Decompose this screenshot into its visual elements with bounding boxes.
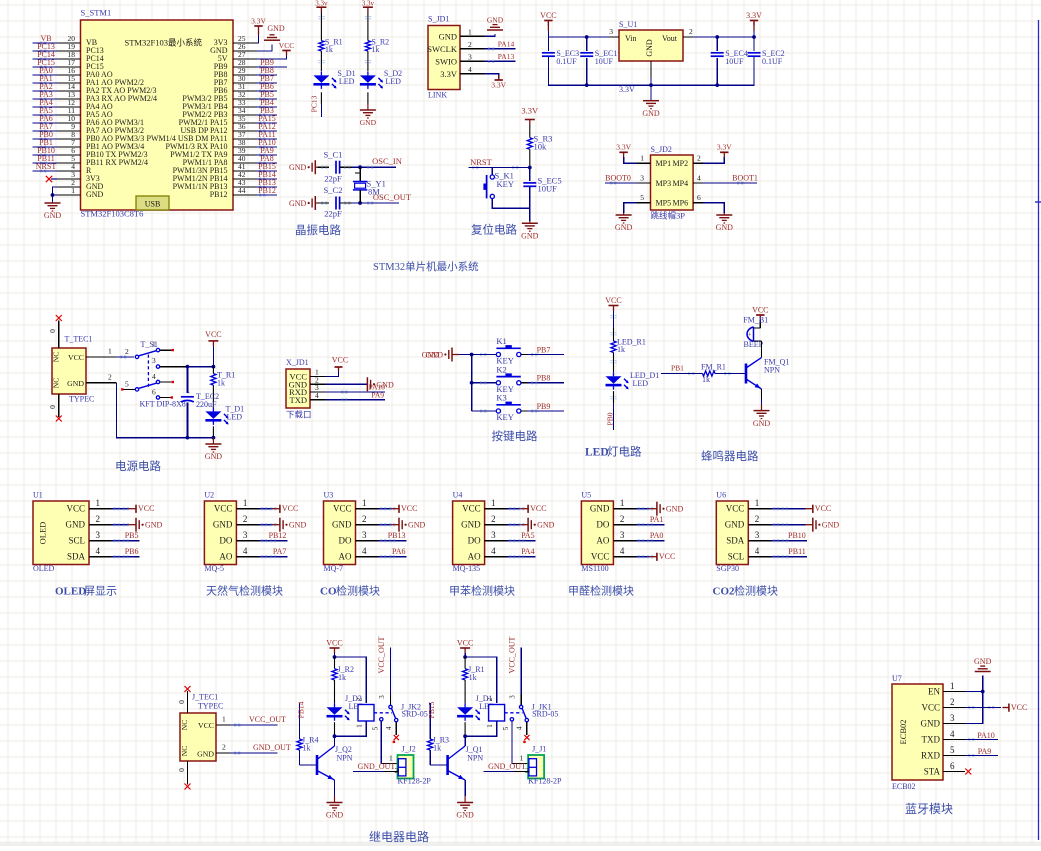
svg-text:6: 6: [697, 193, 701, 202]
svg-text:2: 2: [620, 514, 625, 524]
svg-text:+: +: [187, 390, 191, 397]
svg-text:GND: GND: [822, 521, 840, 530]
svg-text:3.3V: 3.3V: [717, 143, 732, 152]
svg-text:GND: GND: [487, 16, 504, 25]
svg-text:GND: GND: [289, 199, 307, 208]
svg-text:VCC: VCC: [214, 504, 233, 514]
svg-text:STM32F103C8T6: STM32F103C8T6: [81, 209, 144, 219]
svg-text:KEY: KEY: [497, 179, 514, 189]
svg-text:PA4: PA4: [521, 547, 535, 556]
svg-text:VCC: VCC: [1011, 703, 1027, 712]
svg-text:PB1: PB1: [671, 364, 684, 373]
svg-text:S_JD1: S_JD1: [428, 15, 449, 24]
svg-text:3.3V: 3.3V: [616, 143, 631, 152]
svg-text:MQ-7: MQ-7: [324, 564, 344, 573]
svg-text:2: 2: [697, 154, 701, 163]
svg-text:LINK: LINK: [428, 91, 447, 100]
svg-text:5: 5: [371, 726, 379, 730]
svg-text:MP5: MP5: [656, 199, 672, 208]
svg-text:3: 3: [950, 713, 955, 723]
svg-text:VCC: VCC: [726, 504, 745, 514]
svg-text:FM_B1: FM_B1: [743, 316, 768, 325]
svg-text:VCC: VCC: [540, 11, 556, 20]
svg-text:甲醛检测模块: 甲醛检测模块: [568, 584, 634, 598]
svg-text:MP6: MP6: [673, 199, 689, 208]
svg-text:GND: GND: [666, 505, 684, 514]
svg-text:GND: GND: [360, 118, 377, 127]
svg-text:GND: GND: [461, 520, 481, 530]
svg-text:3.3v: 3.3v: [362, 0, 375, 7]
svg-text:GND: GND: [456, 811, 474, 820]
svg-text:VCC: VCC: [66, 504, 85, 514]
svg-text:MP4: MP4: [673, 179, 689, 188]
svg-text:3: 3: [152, 356, 156, 365]
svg-text:LED: LED: [339, 77, 355, 86]
svg-text:TYPEC: TYPEC: [69, 395, 94, 404]
svg-text:PA0: PA0: [650, 531, 664, 540]
svg-text:1k: 1k: [371, 45, 379, 54]
svg-text:1: 1: [356, 724, 364, 728]
svg-text:GND: GND: [289, 521, 307, 530]
svg-text:S_STM1: S_STM1: [81, 8, 112, 18]
svg-text:4: 4: [491, 546, 496, 556]
svg-text:SWCLK: SWCLK: [427, 44, 458, 54]
svg-text:U6: U6: [716, 491, 726, 500]
svg-text:NRST: NRST: [470, 157, 493, 167]
svg-text:2: 2: [395, 766, 399, 775]
svg-text:SGP30: SGP30: [716, 564, 739, 573]
svg-text:MP3: MP3: [656, 179, 672, 188]
svg-text:PB13: PB13: [388, 531, 406, 540]
svg-text:OLED: OLED: [38, 522, 48, 545]
svg-text:GND: GND: [716, 223, 734, 232]
svg-text:10UF: 10UF: [725, 57, 744, 66]
svg-text:KFT DIP-8X8: KFT DIP-8X8: [140, 400, 186, 409]
svg-text:DO: DO: [339, 536, 352, 546]
svg-text:跳线帽3P: 跳线帽3P: [651, 211, 686, 221]
svg-text:1k: 1k: [217, 378, 225, 387]
svg-text:GND: GND: [725, 520, 745, 530]
svg-text:SCL: SCL: [728, 552, 745, 562]
svg-text:KF128-2P: KF128-2P: [528, 777, 562, 786]
svg-text:3: 3: [378, 695, 386, 699]
svg-text:PB10: PB10: [788, 531, 806, 540]
svg-text:1k: 1k: [338, 673, 346, 682]
svg-text:GND_OUT: GND_OUT: [253, 743, 291, 752]
svg-text:PB8: PB8: [537, 374, 551, 383]
svg-text:SWIO: SWIO: [435, 56, 457, 66]
svg-text:10UF: 10UF: [595, 57, 614, 66]
svg-text:电源电路: 电源电路: [115, 459, 161, 473]
svg-text:GND: GND: [426, 351, 444, 360]
svg-text:GND: GND: [205, 452, 223, 461]
svg-text:MP2: MP2: [673, 159, 689, 168]
svg-text:3: 3: [362, 530, 367, 540]
svg-text:PA7: PA7: [273, 547, 287, 556]
svg-text:VCC: VCC: [279, 41, 294, 50]
svg-text:USB: USB: [145, 200, 161, 209]
svg-text:+: +: [748, 332, 752, 339]
svg-text:PB9: PB9: [537, 402, 551, 411]
svg-text:1k: 1k: [617, 345, 625, 354]
svg-text:LED: LED: [633, 379, 649, 388]
svg-text:检测模块: 检测模块: [336, 584, 380, 598]
svg-text:GND: GND: [974, 657, 992, 666]
svg-text:GND: GND: [590, 504, 610, 514]
svg-text:GND: GND: [645, 39, 654, 57]
svg-text:灯电路: 灯电路: [607, 445, 642, 459]
svg-text:1: 1: [222, 715, 226, 724]
svg-text:GND: GND: [86, 190, 104, 199]
svg-text:0.1UF: 0.1UF: [556, 57, 577, 66]
svg-text:STM32单片机最小系统: STM32单片机最小系统: [373, 260, 479, 273]
svg-text:PA5: PA5: [521, 531, 535, 540]
svg-text:VCC_OUT: VCC_OUT: [508, 636, 517, 673]
svg-text:1: 1: [71, 186, 75, 195]
svg-text:GND: GND: [66, 520, 86, 530]
svg-text:GND: GND: [44, 211, 62, 220]
svg-text:GND: GND: [332, 520, 352, 530]
svg-text:MQ-5: MQ-5: [204, 564, 224, 573]
svg-text:VCC: VCC: [815, 504, 831, 513]
svg-text:GND: GND: [521, 231, 539, 240]
svg-text:VCC: VCC: [752, 305, 768, 314]
svg-text:SCL: SCL: [68, 536, 85, 546]
svg-text:1: 1: [108, 347, 112, 356]
svg-text:PA9: PA9: [371, 390, 384, 399]
svg-text:S_JD2: S_JD2: [651, 145, 672, 154]
svg-text:NC: NC: [52, 352, 61, 362]
svg-text:T_TEC1: T_TEC1: [65, 334, 93, 343]
svg-text:VCC: VCC: [138, 504, 154, 513]
svg-text:PC13: PC13: [310, 95, 319, 112]
svg-text:GND: GND: [145, 521, 163, 530]
svg-text:NRST: NRST: [36, 162, 57, 171]
svg-text:2: 2: [525, 766, 529, 775]
svg-text:NPN: NPN: [467, 754, 483, 763]
svg-text:S_C2: S_C2: [324, 185, 343, 195]
svg-text:NC: NC: [180, 720, 189, 730]
svg-text:1: 1: [640, 154, 644, 163]
svg-text:S_U1: S_U1: [619, 20, 637, 29]
svg-text:OSC_IN: OSC_IN: [372, 156, 402, 166]
svg-text:VCC: VCC: [68, 353, 84, 362]
svg-text:1: 1: [243, 498, 248, 508]
svg-text:K1: K1: [496, 336, 506, 346]
svg-text:GND: GND: [537, 521, 555, 530]
svg-text:GND: GND: [197, 750, 214, 759]
svg-text:PB14: PB14: [297, 701, 306, 718]
svg-text:VCC: VCC: [326, 639, 342, 648]
svg-text:VCC: VCC: [198, 721, 214, 730]
svg-text:AO: AO: [468, 552, 481, 562]
svg-text:CO2: CO2: [713, 586, 736, 598]
svg-text:LED: LED: [585, 447, 609, 459]
svg-text:VCC: VCC: [457, 639, 473, 648]
svg-text:PA1: PA1: [650, 515, 664, 524]
svg-text:1: 1: [468, 27, 472, 36]
svg-text:AO: AO: [596, 536, 609, 546]
svg-text:2: 2: [491, 514, 496, 524]
svg-text:4: 4: [516, 726, 524, 730]
svg-text:BOOT1: BOOT1: [732, 173, 758, 182]
svg-text:3: 3: [509, 695, 517, 699]
svg-text:1: 1: [491, 498, 496, 508]
svg-text:GND: GND: [67, 379, 84, 388]
svg-text:TXD: TXD: [290, 395, 307, 405]
svg-text:1: 1: [486, 724, 494, 728]
svg-text:PA6: PA6: [392, 547, 406, 556]
svg-text:FM_R1: FM_R1: [701, 363, 726, 372]
svg-text:Vin: Vin: [625, 34, 637, 43]
svg-text:GND: GND: [408, 521, 426, 530]
svg-text:3.3V: 3.3V: [521, 106, 539, 116]
svg-text:MQ-135: MQ-135: [453, 564, 481, 573]
svg-text:1k: 1k: [303, 744, 311, 753]
svg-text:PB12: PB12: [210, 190, 228, 199]
svg-text:2: 2: [950, 697, 955, 707]
svg-text:PB11 RX PWM2/4: PB11 RX PWM2/4: [86, 158, 148, 167]
svg-text:VCC: VCC: [401, 504, 417, 513]
svg-text:PB12: PB12: [269, 531, 287, 540]
svg-text:晶振电路: 晶振电路: [295, 223, 341, 237]
svg-text:NC: NC: [52, 378, 61, 388]
svg-text:MS1100: MS1100: [581, 564, 608, 573]
svg-text:4: 4: [755, 546, 760, 556]
svg-text:VCC: VCC: [921, 703, 940, 713]
svg-text:2: 2: [108, 373, 112, 382]
svg-text:X_JD1: X_JD1: [286, 358, 309, 367]
svg-text:1: 1: [755, 498, 760, 508]
svg-text:SDA: SDA: [726, 536, 745, 546]
svg-text:3.3V: 3.3V: [746, 11, 762, 20]
svg-text:3: 3: [468, 52, 472, 61]
svg-text:3: 3: [96, 530, 101, 540]
svg-text:4: 4: [620, 546, 625, 556]
svg-text:4: 4: [468, 65, 472, 74]
svg-text:STA: STA: [924, 767, 941, 777]
svg-text:0: 0: [177, 768, 186, 772]
svg-text:TYPEC: TYPEC: [198, 702, 223, 711]
svg-text:4: 4: [362, 546, 367, 556]
svg-text:按键电路: 按键电路: [492, 429, 538, 443]
svg-text:3: 3: [640, 173, 644, 182]
svg-text:1: 1: [389, 754, 393, 763]
svg-text:10k: 10k: [534, 142, 548, 152]
svg-text:2: 2: [486, 697, 494, 701]
svg-text:VCC_OUT: VCC_OUT: [249, 715, 286, 724]
svg-text:VCC: VCC: [605, 296, 621, 305]
svg-text:GND: GND: [642, 109, 660, 118]
svg-text:DO: DO: [219, 536, 232, 546]
svg-text:220uF: 220uF: [196, 400, 217, 409]
svg-text:SRD-05: SRD-05: [402, 709, 428, 718]
svg-text:8M: 8M: [368, 187, 380, 197]
svg-text:PB7: PB7: [537, 345, 551, 354]
svg-text:J_TEC1: J_TEC1: [192, 693, 218, 702]
svg-text:PA10: PA10: [977, 731, 995, 740]
svg-text:PB6: PB6: [125, 547, 139, 556]
svg-text:0: 0: [48, 405, 57, 409]
svg-text:BEEP: BEEP: [744, 340, 764, 349]
svg-text:PB12: PB12: [258, 186, 276, 195]
svg-text:复位电路: 复位电路: [471, 223, 517, 237]
svg-text:GND: GND: [615, 223, 633, 232]
svg-text:4: 4: [96, 546, 101, 556]
svg-text:VCC: VCC: [282, 504, 298, 513]
svg-text:2: 2: [362, 514, 367, 524]
svg-text:1: 1: [152, 340, 156, 349]
svg-text:1: 1: [362, 498, 367, 508]
svg-text:2: 2: [243, 514, 248, 524]
svg-text:2: 2: [222, 743, 226, 752]
svg-text:BOOT0: BOOT0: [605, 173, 631, 182]
svg-text:2: 2: [689, 27, 693, 36]
svg-text:LED: LED: [227, 413, 243, 422]
svg-text:PB5: PB5: [125, 531, 139, 540]
svg-text:5: 5: [950, 745, 955, 755]
svg-text:J_J1: J_J1: [532, 745, 546, 754]
svg-text:3: 3: [491, 530, 496, 540]
svg-text:5: 5: [640, 193, 644, 202]
svg-text:OLED: OLED: [33, 564, 55, 573]
svg-text:4: 4: [243, 546, 248, 556]
svg-text:3.3V: 3.3V: [251, 16, 266, 25]
svg-text:U3: U3: [324, 491, 334, 500]
svg-text:GND: GND: [289, 163, 307, 172]
svg-text:0.1UF: 0.1UF: [762, 57, 783, 66]
svg-text:PA9: PA9: [978, 747, 992, 756]
svg-text:VCC: VCC: [591, 552, 610, 562]
svg-text:RXD: RXD: [921, 751, 941, 761]
svg-text:GND: GND: [326, 811, 344, 820]
svg-text:VCC: VCC: [530, 504, 546, 513]
svg-text:EN: EN: [928, 687, 940, 697]
svg-text:VCC: VCC: [333, 504, 352, 514]
svg-text:DO: DO: [468, 536, 481, 546]
svg-text:2: 2: [356, 697, 364, 701]
svg-text:下载口: 下载口: [286, 410, 312, 420]
svg-text:SRD-05: SRD-05: [532, 709, 558, 718]
svg-text:4: 4: [950, 729, 955, 739]
svg-text:CO: CO: [320, 586, 337, 598]
svg-text:6: 6: [950, 761, 955, 771]
svg-text:4: 4: [385, 726, 393, 730]
svg-text:DO: DO: [596, 520, 609, 530]
svg-text:LED: LED: [385, 77, 401, 86]
svg-text:SDA: SDA: [67, 552, 86, 562]
svg-text:3.3V: 3.3V: [440, 69, 458, 79]
svg-text:1: 1: [96, 498, 101, 508]
svg-text:蓝牙模块: 蓝牙模块: [905, 802, 953, 816]
svg-text:3: 3: [609, 27, 613, 36]
svg-text:GND: GND: [753, 419, 771, 428]
svg-text:屏显示: 屏显示: [84, 585, 117, 598]
svg-text:1k: 1k: [469, 673, 477, 682]
svg-text:NPN: NPN: [764, 366, 780, 375]
svg-text:3.3v: 3.3v: [315, 0, 328, 7]
svg-text:4: 4: [697, 173, 701, 182]
svg-text:J_J2: J_J2: [402, 745, 416, 754]
svg-text:天然气检测模块: 天然气检测模块: [206, 584, 283, 598]
svg-text:VCC: VCC: [205, 330, 221, 339]
svg-text:STM32F103最小系统: STM32F103最小系统: [125, 38, 203, 48]
svg-text:继电器电路: 继电器电路: [369, 829, 429, 844]
svg-text:1: 1: [620, 498, 625, 508]
svg-text:22pF: 22pF: [324, 174, 342, 184]
svg-text:10UF: 10UF: [538, 184, 558, 194]
svg-text:U7: U7: [892, 674, 902, 683]
svg-text:AO: AO: [339, 552, 352, 562]
svg-text:Vout: Vout: [662, 34, 678, 43]
svg-text:VCC: VCC: [462, 504, 481, 514]
svg-text:KF128-2P: KF128-2P: [398, 777, 432, 786]
svg-text:蜂鸣器电路: 蜂鸣器电路: [701, 449, 759, 463]
svg-text:3.3V: 3.3V: [491, 81, 506, 90]
svg-text:5: 5: [502, 726, 510, 730]
svg-text:44: 44: [238, 186, 246, 195]
svg-text:MP1: MP1: [656, 159, 672, 168]
svg-text:6: 6: [152, 388, 156, 397]
svg-text:OLED: OLED: [55, 586, 86, 598]
svg-text:U4: U4: [453, 491, 463, 500]
svg-text:U1: U1: [33, 491, 43, 500]
svg-text:检测模块: 检测模块: [734, 584, 778, 598]
svg-text:GND_OUT: GND_OUT: [488, 762, 526, 771]
svg-text:AO: AO: [219, 552, 232, 562]
svg-text:S_C1: S_C1: [324, 150, 343, 160]
svg-text:KEY: KEY: [496, 412, 513, 422]
svg-text:PB11: PB11: [788, 547, 806, 556]
svg-text:K2: K2: [496, 364, 506, 374]
svg-text:VCC_OUT: VCC_OUT: [377, 636, 386, 673]
svg-text:3.3V: 3.3V: [619, 85, 635, 94]
svg-text:1k: 1k: [433, 744, 441, 753]
svg-text:2: 2: [755, 514, 760, 524]
svg-text:VCC: VCC: [659, 552, 675, 561]
svg-text:PA14: PA14: [498, 40, 515, 49]
svg-text:1k: 1k: [702, 375, 710, 384]
svg-text:1k: 1k: [325, 45, 333, 54]
svg-text:0: 0: [48, 329, 57, 333]
svg-text:GND_OUT: GND_OUT: [358, 762, 396, 771]
svg-text:0: 0: [177, 700, 186, 704]
svg-text:GND: GND: [267, 24, 285, 33]
svg-text:K3: K3: [496, 393, 506, 403]
svg-text:PB15: PB15: [427, 701, 436, 718]
svg-text:GND: GND: [213, 520, 233, 530]
svg-text:3: 3: [243, 530, 248, 540]
svg-text:GND: GND: [921, 719, 941, 729]
svg-text:2: 2: [468, 40, 472, 49]
svg-text:U5: U5: [581, 491, 591, 500]
svg-text:5: 5: [125, 379, 129, 388]
svg-text:22pF: 22pF: [324, 208, 342, 218]
svg-text:TXD: TXD: [922, 735, 941, 745]
svg-text:3: 3: [620, 530, 625, 540]
svg-text:甲苯检测模块: 甲苯检测模块: [449, 584, 515, 598]
svg-text:1: 1: [950, 681, 955, 691]
svg-text:U2: U2: [204, 491, 214, 500]
svg-text:NC: NC: [180, 746, 189, 756]
svg-text:PB0: PB0: [606, 412, 615, 425]
svg-text:4: 4: [315, 391, 319, 400]
svg-text:ECB02: ECB02: [898, 719, 908, 744]
svg-text:1: 1: [520, 754, 524, 763]
svg-text:4: 4: [152, 372, 156, 381]
svg-text:2: 2: [125, 347, 129, 356]
svg-text:GND: GND: [439, 31, 457, 41]
